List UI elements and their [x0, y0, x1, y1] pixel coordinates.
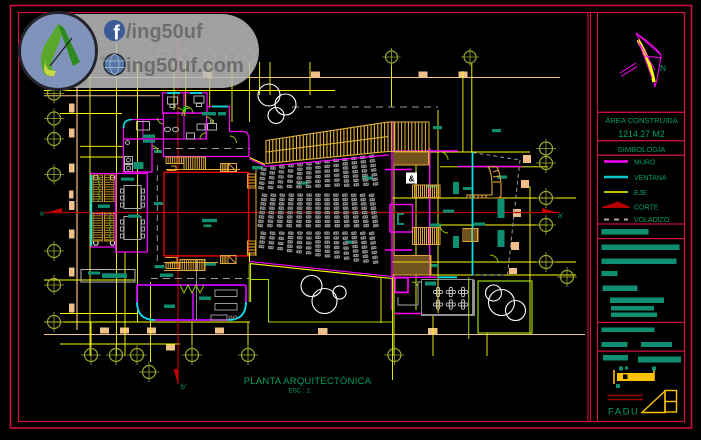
shelves grey [215, 290, 237, 297]
closet zigzag [180, 285, 204, 293]
seats left aisle edge [255, 168, 257, 256]
axis circles left column [48, 87, 61, 329]
double red rule [608, 395, 644, 397]
legend corte [602, 202, 630, 208]
svg-text:FADU: FADU [608, 407, 639, 418]
notes section 2 [598, 239, 685, 323]
teal arrows corridor [128, 126, 507, 308]
notes section 3 [598, 322, 685, 351]
wall mid verticals [183, 113, 185, 139]
& symbol [406, 173, 417, 184]
switchback stairs left block [93, 175, 103, 241]
trees top [258, 84, 296, 124]
curved stair right wing [467, 167, 501, 198]
dashed voladizo trapezoid [473, 153, 521, 276]
watermark banner [20, 13, 260, 90]
upper offices outline [163, 93, 208, 113]
axis circles top [383, 48, 480, 66]
ramp hatched band [266, 122, 388, 164]
hatch box with cross lower [221, 256, 229, 264]
horizontal axis lines right [44, 114, 576, 345]
svg-text:CORTE: CORTE [634, 205, 659, 212]
cyan window top right office [212, 106, 228, 108]
svg-text:f: f [113, 23, 120, 45]
trees bottom right box [478, 281, 532, 333]
door arcs upper (yellow-green) [152, 108, 237, 152]
svg-text:&: & [409, 175, 415, 184]
svg-text:N: N [660, 63, 666, 73]
faint circles behind watermark [86, 49, 256, 62]
ventana cyan segments right wing [438, 153, 473, 278]
svg-text:ing50uf.com: ing50uf.com [126, 55, 244, 77]
b arrow bottom [174, 369, 179, 384]
svg-text:MURO: MURO [634, 160, 656, 167]
section line b-b red vertical [177, 35, 179, 384]
section line a-a red [44, 212, 560, 214]
grey tables left [121, 186, 145, 240]
right wing walls [385, 121, 521, 314]
lawn boundary lime [250, 280, 393, 323]
left wing block [91, 174, 116, 248]
area construida box [598, 112, 685, 140]
left dimension chain [76, 78, 78, 331]
hatch box with cross upper [221, 164, 229, 172]
stage corner hooks yellow [165, 166, 256, 262]
axis circles right [536, 139, 577, 288]
auditorium lower boundary [250, 262, 393, 277]
a arrow right [542, 208, 557, 213]
top dimension line tan 2 [44, 95, 160, 97]
svg-text:VENTANA: VENTANA [634, 175, 667, 182]
right patio small room walls [395, 278, 408, 293]
fadu logo [642, 391, 677, 413]
north arrow [620, 33, 666, 87]
scale bar detail [614, 367, 656, 389]
dashed corridor line lower [151, 278, 250, 280]
vertical axis lines [90, 44, 530, 362]
office right [207, 107, 230, 132]
left rooms block [124, 120, 164, 140]
tables room box [116, 174, 148, 253]
north arrow box [598, 13, 685, 113]
auditorium north wall magenta along ramp [250, 155, 390, 166]
stair right wing bottom [394, 256, 431, 276]
dashed corridor line upper [292, 106, 438, 108]
interior fixtures upper [125, 96, 217, 172]
teal accents upper rooms [134, 112, 227, 169]
toilets block left [124, 139, 153, 172]
svg-text:SIMBOLOGÍA: SIMBOLOGÍA [618, 145, 667, 154]
stair below ramp landing [394, 152, 429, 165]
top dimension line yellow [44, 90, 335, 92]
legend voladizo [604, 219, 628, 221]
grey dashed line left of stage [156, 165, 158, 263]
legend ventana [604, 176, 628, 179]
auditorium seats [257, 154, 379, 264]
svg-text:a: a [40, 211, 44, 218]
trees bottom center [301, 276, 346, 314]
patio tables [422, 277, 476, 339]
axis circle cross ticks left [44, 84, 64, 333]
small stair mid right [463, 229, 478, 242]
notes section 4 title block [598, 351, 685, 421]
svg-text:ÁREA CONSTRUIDA: ÁREA CONSTRUIDA [605, 116, 679, 125]
svg-text:htp://w: htp://w [100, 56, 115, 62]
green C in small room [398, 214, 404, 224]
dashed corridor line mid [152, 148, 250, 150]
svg-text:EJE: EJE [634, 190, 647, 197]
bottom room [137, 260, 246, 320]
legend eje [604, 191, 628, 193]
corridor stair lower [166, 263, 180, 269]
planter box bottom left [81, 270, 135, 283]
ramp landing [388, 122, 429, 152]
svg-text:a': a' [558, 213, 563, 220]
room-to-auditorium connectors [248, 264, 250, 302]
long tan base line [44, 334, 585, 336]
wall right edge of cluster [230, 132, 250, 157]
green door right wing rooms [440, 152, 498, 263]
dim tick marks top [203, 72, 468, 78]
stair right wing lower [413, 228, 441, 245]
svg-text:VOLADIZO: VOLADIZO [634, 217, 670, 224]
legend muro [604, 160, 628, 163]
sidebar divider double line [587, 13, 589, 422]
svg-text:1214.27 M2: 1214.27 M2 [618, 129, 665, 139]
grey L wall patio [398, 282, 421, 305]
legend box [598, 155, 685, 224]
notes section 1 [598, 224, 685, 239]
top dimension line tan [44, 77, 560, 79]
stage block red outline [164, 172, 249, 256]
corridor stair upper [166, 157, 184, 164]
axis circles bottom [81, 345, 404, 382]
svg-text:PLANTA ARQUITECTÓNICA: PLANTA ARQUITECTÓNICA [244, 375, 372, 386]
teal door bars right wing [453, 182, 505, 248]
stair right wing upper [413, 185, 441, 198]
simbologia header [598, 141, 685, 156]
corridor wall below rooms [164, 139, 250, 157]
svg-text:ESC : 1:: ESC : 1: [288, 388, 311, 395]
svg-text:/ing50uf: /ing50uf [126, 21, 203, 43]
svg-text:b': b' [181, 384, 186, 391]
a arrow left [47, 208, 62, 213]
bottom tick rects [100, 155, 531, 351]
stage interior arrow [202, 219, 217, 222]
mid rooms block [164, 113, 207, 139]
